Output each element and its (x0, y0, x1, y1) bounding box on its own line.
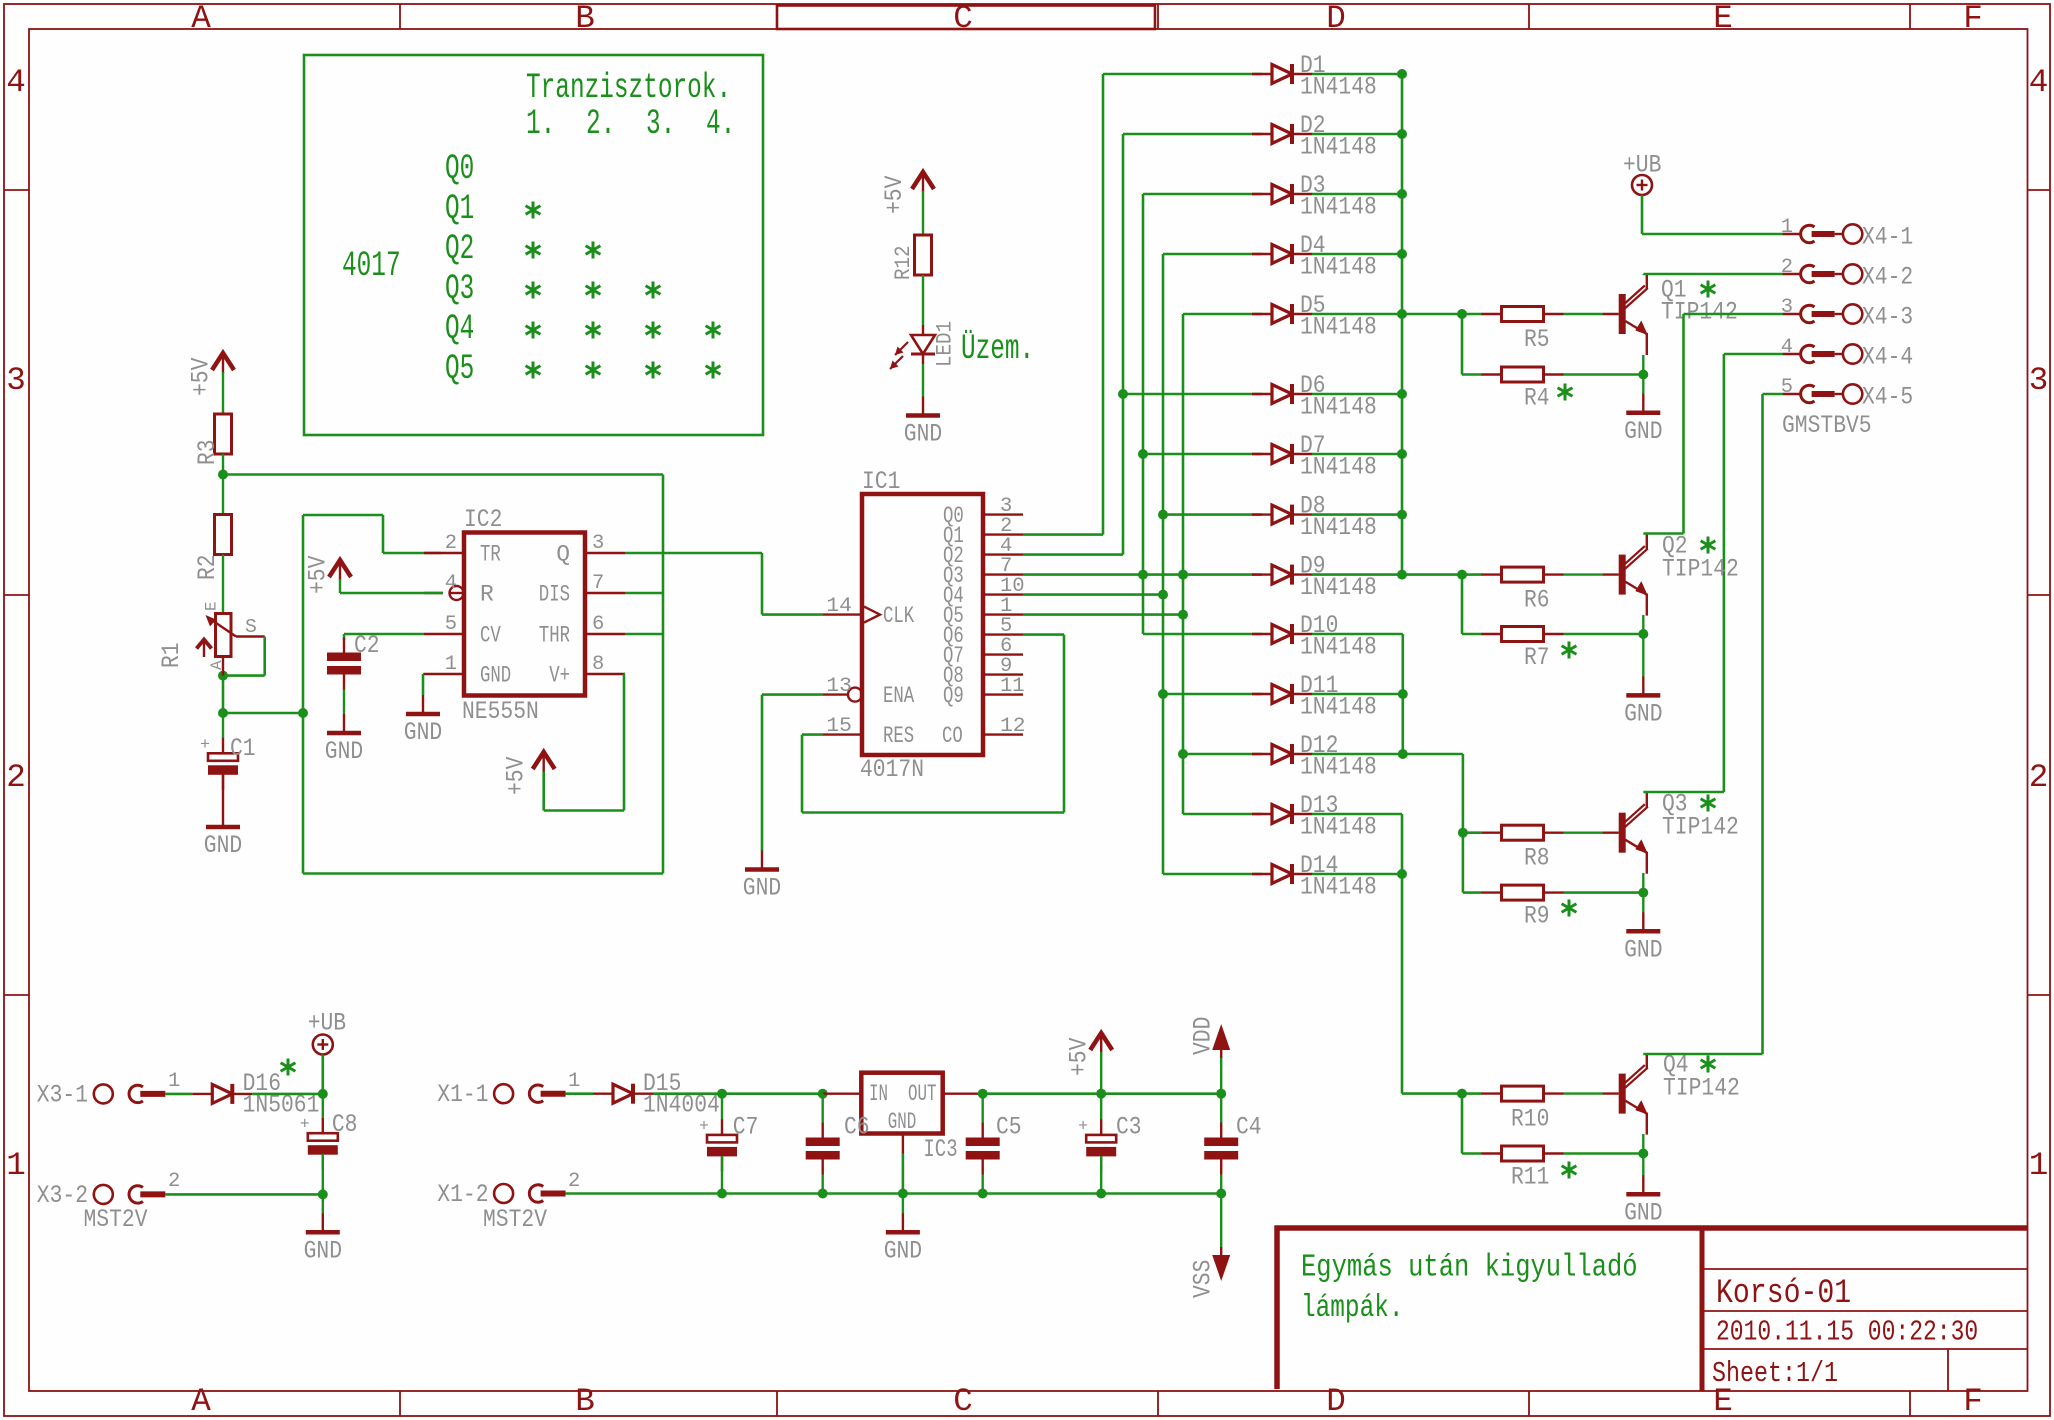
svg-text:14: 14 (826, 595, 852, 618)
svg-text:1N4148: 1N4148 (1300, 193, 1377, 222)
svg-text:GND: GND (888, 1109, 917, 1135)
svg-text:Sheet:1/1: Sheet:1/1 (1712, 1357, 1838, 1390)
svg-text:+: + (200, 736, 210, 755)
svg-text:GND: GND (204, 831, 242, 860)
svg-text:1: 1 (568, 1070, 580, 1093)
svg-text:A: A (191, 0, 211, 37)
svg-text:TIP142: TIP142 (1662, 813, 1739, 842)
svg-text:E: E (203, 601, 221, 611)
svg-text:4: 4 (2029, 64, 2049, 101)
svg-text:+5V: +5V (304, 556, 333, 594)
svg-text:Q: Q (556, 542, 570, 568)
svg-text:3.: 3. (646, 105, 675, 144)
svg-text:1N4148: 1N4148 (1300, 73, 1377, 102)
svg-text:S: S (245, 616, 257, 638)
svg-text:GND: GND (304, 1236, 342, 1265)
svg-text:TR: TR (480, 542, 501, 568)
svg-text:3: 3 (6, 362, 26, 399)
svg-text:X4-4: X4-4 (1862, 343, 1913, 372)
svg-text:R8: R8 (1524, 844, 1550, 873)
svg-text:2: 2 (168, 1170, 180, 1193)
svg-text:IC1: IC1 (862, 467, 900, 496)
svg-text:TIP142: TIP142 (1662, 555, 1739, 584)
svg-text:Q0: Q0 (445, 150, 474, 189)
svg-text:4017: 4017 (342, 247, 401, 286)
svg-text:CO: CO (942, 723, 963, 749)
svg-text:GND: GND (1624, 699, 1662, 728)
svg-text:4: 4 (445, 572, 457, 595)
svg-text:D: D (1326, 0, 1346, 37)
svg-text:4.: 4. (706, 105, 735, 144)
svg-text:C6: C6 (844, 1113, 870, 1142)
svg-text:GND: GND (1624, 935, 1662, 964)
svg-text:THR: THR (539, 623, 570, 649)
svg-text:2: 2 (445, 532, 457, 555)
svg-text:2: 2 (6, 759, 26, 796)
svg-text:Q1: Q1 (445, 190, 474, 229)
svg-text:GND: GND (404, 718, 442, 747)
svg-text:1N4148: 1N4148 (1300, 313, 1377, 342)
svg-text:+5V: +5V (1065, 1038, 1094, 1076)
svg-text:C: C (953, 0, 973, 37)
svg-text:5: 5 (1781, 376, 1793, 399)
svg-text:GND: GND (1624, 1198, 1662, 1227)
svg-text:2010.11.15 00:22:30: 2010.11.15 00:22:30 (1716, 1316, 1978, 1349)
svg-text:F: F (1963, 0, 1983, 37)
svg-text:ENA: ENA (883, 683, 914, 709)
svg-text:MST2V: MST2V (84, 1205, 148, 1234)
svg-text:11: 11 (1000, 675, 1025, 698)
svg-text:Q5: Q5 (445, 350, 474, 389)
svg-text:A: A (191, 1383, 211, 1420)
svg-text:Q2: Q2 (445, 230, 474, 269)
svg-text:R1: R1 (157, 642, 186, 668)
svg-text:+: + (699, 1117, 709, 1136)
svg-text:X1-2: X1-2 (437, 1180, 488, 1209)
svg-text:1N4148: 1N4148 (1300, 513, 1377, 542)
svg-text:R7: R7 (1524, 643, 1550, 672)
svg-text:R10: R10 (1511, 1105, 1549, 1134)
svg-text:1: 1 (168, 1070, 180, 1093)
svg-text:Üzem.: Üzem. (961, 329, 1034, 369)
svg-text:13: 13 (826, 675, 852, 698)
svg-text:C8: C8 (332, 1110, 358, 1139)
svg-text:GND: GND (884, 1236, 922, 1265)
svg-text:C7: C7 (733, 1113, 759, 1142)
svg-text:3: 3 (592, 532, 604, 555)
svg-text:+: + (300, 1116, 310, 1135)
svg-text:GND: GND (480, 663, 511, 689)
svg-text:R11: R11 (1511, 1163, 1549, 1192)
svg-text:IN: IN (869, 1081, 888, 1107)
svg-text:1N4148: 1N4148 (1300, 813, 1377, 842)
svg-text:TIP142: TIP142 (1661, 298, 1738, 327)
svg-text:VDD: VDD (1189, 1017, 1218, 1055)
svg-text:GMSTBV5: GMSTBV5 (1782, 411, 1872, 440)
svg-text:LED1: LED1 (933, 321, 958, 367)
svg-text:R3: R3 (193, 439, 222, 465)
svg-text:1N4148: 1N4148 (1300, 393, 1377, 422)
svg-text:V+: V+ (549, 663, 570, 689)
svg-text:R9: R9 (1524, 902, 1550, 931)
svg-text:+5V: +5V (187, 358, 216, 396)
svg-text:12: 12 (1000, 715, 1026, 738)
svg-text:1: 1 (445, 653, 457, 676)
svg-text:OUT: OUT (908, 1081, 937, 1107)
svg-text:X4-3: X4-3 (1862, 303, 1913, 332)
svg-text:Q4: Q4 (445, 310, 474, 349)
svg-text:Q9: Q9 (943, 683, 964, 709)
svg-text:15: 15 (826, 715, 852, 738)
svg-text:R5: R5 (1524, 325, 1550, 354)
svg-text:7: 7 (592, 572, 604, 595)
svg-text:C5: C5 (996, 1113, 1022, 1142)
svg-text:R2: R2 (193, 554, 222, 580)
svg-text:+5V: +5V (880, 176, 909, 214)
svg-text:1N4148: 1N4148 (1300, 253, 1377, 282)
svg-text:TIP142: TIP142 (1663, 1074, 1740, 1103)
svg-text:X4-2: X4-2 (1862, 263, 1913, 292)
svg-text:Q3: Q3 (445, 270, 474, 309)
svg-text:1N4148: 1N4148 (1300, 453, 1377, 482)
svg-text:1N4148: 1N4148 (1300, 753, 1377, 782)
svg-text:R: R (480, 582, 494, 608)
svg-text:2.: 2. (586, 105, 615, 144)
svg-text:Korsó-01: Korsó-01 (1716, 1275, 1851, 1313)
svg-text:4017N: 4017N (860, 755, 924, 784)
svg-text:4: 4 (1781, 336, 1793, 359)
svg-text:R12: R12 (891, 246, 916, 281)
svg-text:X1-1: X1-1 (437, 1080, 488, 1109)
svg-text:NE555N: NE555N (462, 697, 539, 726)
svg-text:+: + (1078, 1117, 1088, 1136)
svg-text:6: 6 (592, 613, 604, 636)
svg-text:B: B (575, 1383, 595, 1420)
svg-text:5: 5 (445, 613, 457, 636)
svg-text:F: F (1963, 1383, 1983, 1420)
svg-text:DIS: DIS (539, 582, 570, 608)
svg-text:C: C (953, 1383, 973, 1420)
svg-text:B: B (575, 0, 595, 37)
svg-text:MST2V: MST2V (483, 1205, 547, 1234)
svg-text:CLK: CLK (883, 603, 914, 629)
svg-text:1: 1 (1781, 216, 1793, 239)
svg-text:3: 3 (2029, 362, 2049, 399)
svg-text:D: D (1326, 1383, 1346, 1420)
svg-text:2: 2 (2029, 759, 2049, 796)
svg-text:GND: GND (325, 737, 363, 766)
svg-text:C3: C3 (1116, 1113, 1142, 1142)
svg-text:Tranzisztorok.: Tranzisztorok. (526, 69, 731, 108)
svg-text:+UB: +UB (308, 1009, 346, 1038)
svg-text:1: 1 (6, 1147, 26, 1184)
svg-text:X4-5: X4-5 (1862, 383, 1913, 412)
svg-text:lámpák.: lámpák. (1301, 1290, 1404, 1326)
svg-text:C2: C2 (354, 631, 380, 660)
svg-text:VSS: VSS (1189, 1260, 1218, 1298)
svg-text:X4-1: X4-1 (1862, 223, 1913, 252)
svg-text:RES: RES (883, 723, 914, 749)
svg-text:GND: GND (1624, 417, 1662, 446)
svg-text:3: 3 (1781, 296, 1793, 319)
svg-text:8: 8 (592, 653, 604, 676)
svg-text:R6: R6 (1524, 586, 1550, 615)
svg-text:X3-1: X3-1 (37, 1080, 88, 1109)
svg-text:C4: C4 (1236, 1113, 1262, 1142)
svg-text:R4: R4 (1524, 384, 1550, 413)
svg-text:GND: GND (904, 420, 942, 449)
svg-text:CV: CV (480, 623, 501, 649)
svg-text:1N4148: 1N4148 (1300, 573, 1377, 602)
svg-text:+5V: +5V (502, 757, 531, 795)
svg-text:C1: C1 (230, 734, 256, 763)
svg-text:1.: 1. (526, 105, 555, 144)
svg-text:1N4148: 1N4148 (1300, 693, 1377, 722)
svg-text:4: 4 (6, 64, 26, 101)
svg-text:1N4148: 1N4148 (1300, 133, 1377, 162)
svg-text:E: E (1713, 0, 1733, 37)
svg-text:1N4148: 1N4148 (1300, 873, 1377, 902)
svg-text:GND: GND (743, 874, 781, 903)
svg-text:1N4148: 1N4148 (1300, 633, 1377, 662)
svg-text:X3-2: X3-2 (37, 1181, 88, 1210)
svg-text:Egymás után kigyulladó: Egymás után kigyulladó (1301, 1250, 1638, 1286)
svg-text:1: 1 (2029, 1147, 2049, 1184)
svg-text:2: 2 (568, 1170, 580, 1193)
svg-text:2: 2 (1781, 256, 1793, 279)
svg-text:IC2: IC2 (464, 505, 502, 534)
svg-text:IC3: IC3 (923, 1135, 957, 1164)
